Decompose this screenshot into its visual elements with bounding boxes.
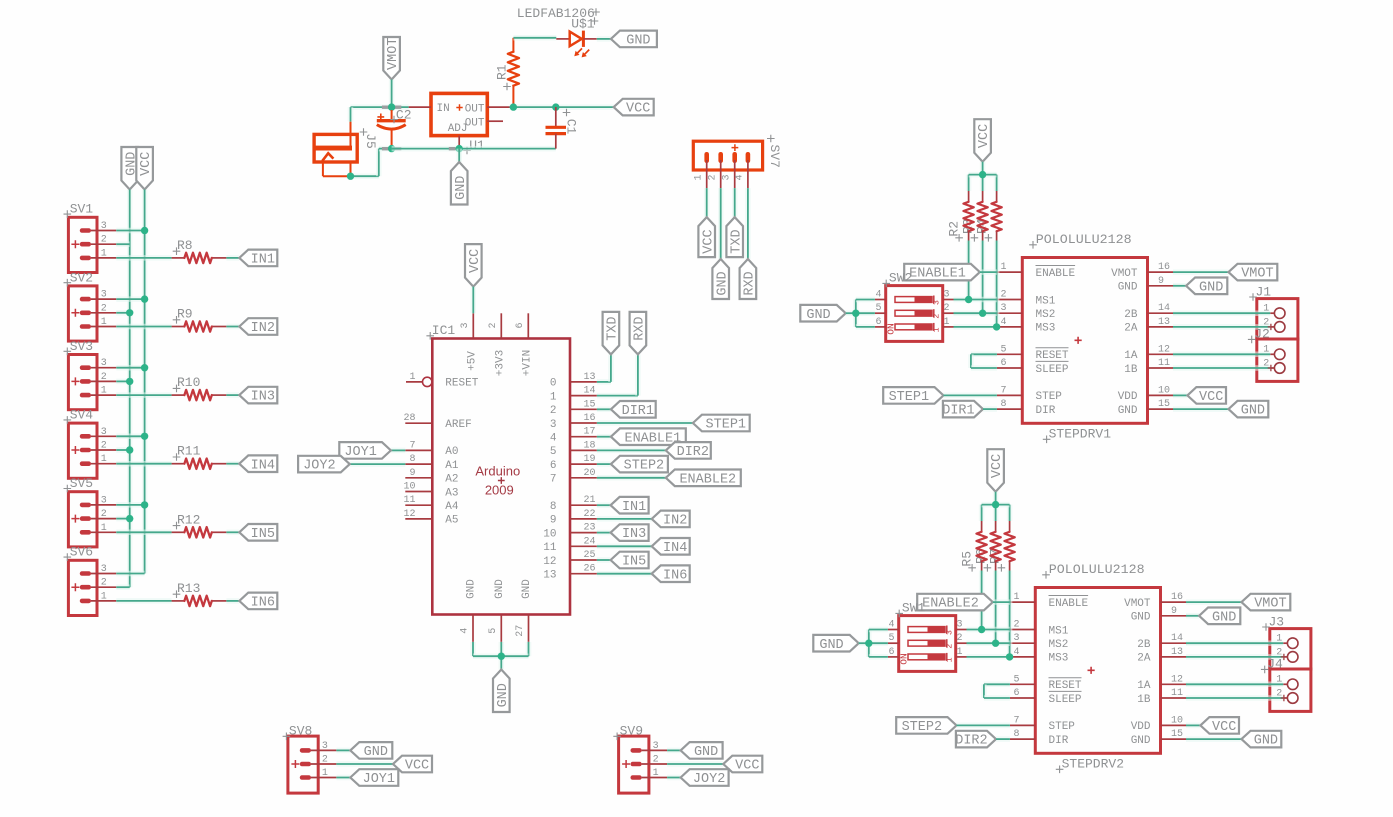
svg-text:ADJ: ADJ — [448, 123, 468, 135]
wire RESET-SLEEP tie STEPDRV1 — [971, 354, 997, 368]
wire SV3 pin2 to GND rail — [116, 379, 129, 385]
wire pullup 1 to MS1 STEPDRV2 — [979, 571, 985, 630]
svg-text:3: 3 — [101, 564, 107, 575]
svg-text:3: 3 — [101, 290, 107, 301]
pin IC1 GND pins — [460, 579, 534, 642]
svg-text:2: 2 — [707, 174, 718, 180]
wire SV7 pin2 to GND — [718, 188, 724, 259]
power flag GND (under IC1) — [493, 670, 511, 713]
wire SV8 pin1 — [336, 775, 350, 781]
node C1 junction — [552, 103, 559, 110]
svg-text:16: 16 — [1158, 262, 1170, 273]
net label GND (SV9) — [681, 742, 723, 760]
svg-text:2: 2 — [101, 578, 107, 589]
svg-text:3: 3 — [1000, 303, 1006, 314]
pin IC1 A2 — [405, 468, 458, 486]
connector J3 — [1186, 614, 1311, 669]
power flag VMOT (top) — [383, 37, 401, 80]
resistor R11 — [172, 444, 227, 469]
svg-text:ENABLE1: ENABLE1 — [909, 267, 966, 282]
svg-text:GND: GND — [1131, 735, 1151, 747]
svg-text:11: 11 — [1171, 688, 1183, 699]
svg-text:22: 22 — [584, 509, 596, 520]
svg-text:TXD: TXD — [606, 316, 621, 340]
svg-text:GND: GND — [1118, 405, 1138, 417]
connector J2 — [1173, 327, 1298, 382]
svg-text:GND: GND — [694, 745, 718, 760]
svg-text:MS1: MS1 — [1036, 295, 1056, 307]
svg-text:17: 17 — [584, 427, 596, 438]
wire VCC output net — [510, 104, 614, 110]
net label IN6 — [239, 593, 277, 611]
svg-text:13: 13 — [543, 570, 556, 582]
wire IC1 ground joining — [473, 642, 529, 670]
wire pullup 1 to MS1 STEPDRV1 — [966, 241, 972, 300]
resistor R10 — [172, 375, 227, 400]
wire VCC to pullups STEPDRV2 — [982, 492, 1010, 505]
mcu board IC1 Arduino2009 body — [426, 323, 570, 615]
svg-text:ON: ON — [886, 323, 897, 334]
svg-text:MS3: MS3 — [1049, 653, 1069, 665]
node R1 junction — [510, 103, 517, 110]
net label ENABLE2 — [666, 470, 741, 488]
wire SV6 pin2 to GND rail — [116, 584, 129, 590]
svg-text:2: 2 — [101, 372, 107, 383]
svg-text:3: 3 — [101, 221, 107, 232]
svg-text:GND: GND — [1131, 612, 1151, 624]
svg-text:1: 1 — [409, 372, 415, 383]
svg-text:IN1: IN1 — [622, 500, 646, 515]
svg-text:VDD: VDD — [1131, 721, 1151, 733]
wire DIR1 to DIR pin — [983, 406, 997, 412]
svg-text:JOY2: JOY2 — [693, 772, 725, 787]
svg-text:15: 15 — [584, 399, 596, 410]
stepper driver STEPDRV2 body — [1010, 562, 1186, 773]
svg-text:ENABLE: ENABLE — [1049, 598, 1089, 610]
svg-text:POLOLULU2128: POLOLULU2128 — [1049, 562, 1145, 577]
svg-text:5: 5 — [488, 628, 499, 634]
svg-text:SV7: SV7 — [767, 144, 782, 167]
svg-text:15: 15 — [1171, 729, 1183, 740]
svg-text:R10: R10 — [177, 375, 200, 390]
svg-text:VMOT: VMOT — [1254, 597, 1286, 612]
svg-text:VCC: VCC — [468, 249, 483, 273]
svg-text:GND: GND — [1118, 282, 1138, 294]
node C2 bottom junction — [382, 145, 401, 152]
svg-text:GND: GND — [1199, 280, 1223, 295]
svg-text:1B: 1B — [1137, 694, 1151, 706]
svg-text:14: 14 — [1171, 633, 1183, 644]
svg-text:12: 12 — [403, 509, 415, 520]
svg-text:RESET: RESET — [1036, 350, 1069, 362]
svg-text:4: 4 — [888, 620, 894, 631]
node MS3 junction STEPDRV2 — [1006, 653, 1013, 660]
junction SV3 GND — [126, 378, 133, 385]
net label GND (STEPDRV1 pin9) — [1173, 278, 1227, 296]
resistor network R5 — [960, 505, 1015, 572]
net label DIR1 — [611, 401, 656, 419]
wire R8 to IN1 — [226, 255, 239, 261]
svg-text:4: 4 — [460, 628, 471, 634]
net label VCC (regulator output) — [614, 99, 654, 117]
wire SW2 pin2 to MS2 — [954, 310, 997, 316]
svg-text:8: 8 — [409, 454, 415, 465]
svg-text:+3V3: +3V3 — [494, 350, 506, 376]
wire SV7 pin4 to RXD — [745, 188, 751, 259]
net label ENABLE1 — [611, 428, 686, 446]
svg-text:R12: R12 — [177, 512, 200, 527]
net label TXD (sv7) — [726, 217, 744, 257]
svg-text:11: 11 — [1158, 358, 1170, 369]
svg-text:SV2: SV2 — [70, 270, 93, 285]
svg-text:DIR: DIR — [1049, 735, 1069, 747]
svg-text:1: 1 — [101, 248, 107, 259]
svg-text:ENABLE2: ENABLE2 — [922, 597, 979, 612]
svg-text:SW2: SW2 — [889, 271, 912, 286]
connector J4 — [1186, 657, 1311, 712]
wire J5 ground to C2 bottom — [351, 149, 392, 177]
wire SV7 pin3 to TXD — [732, 188, 738, 217]
wire SV5 pin2 to GND rail — [116, 516, 129, 522]
connector SV3 — [64, 339, 117, 410]
svg-text:3: 3 — [101, 495, 107, 506]
svg-text:1A: 1A — [1137, 680, 1151, 692]
svg-text:A0: A0 — [445, 446, 458, 458]
svg-text:2: 2 — [653, 755, 659, 766]
svg-text:IN3: IN3 — [622, 527, 646, 542]
net label DIR2 — [955, 731, 996, 749]
svg-text:8: 8 — [550, 501, 557, 513]
svg-text:A3: A3 — [445, 487, 458, 499]
svg-text:2009: 2009 — [485, 483, 514, 498]
svg-text:R11: R11 — [177, 444, 201, 459]
wire IC1 to ENABLE1 — [597, 434, 611, 440]
net label DIR1 — [942, 401, 983, 419]
svg-text:2A: 2A — [1124, 323, 1138, 335]
wire IC1 to STEP2 — [597, 461, 611, 467]
svg-text:J5: J5 — [363, 133, 378, 149]
net label IN2 — [239, 318, 277, 336]
svg-text:6: 6 — [1000, 358, 1006, 369]
wire GND hub SW2 — [846, 300, 875, 327]
svg-text:IN1: IN1 — [251, 253, 275, 268]
svg-text:J3: J3 — [1269, 614, 1285, 629]
svg-text:8: 8 — [1000, 399, 1006, 410]
svg-text:14: 14 — [1158, 303, 1170, 314]
net label GND (SW1) — [813, 635, 858, 653]
svg-text:10: 10 — [1171, 715, 1183, 726]
net label GND (sv7) — [712, 259, 730, 299]
svg-text:DIR1: DIR1 — [622, 404, 654, 419]
svg-text:SV9: SV9 — [620, 724, 643, 739]
svg-text:GND: GND — [1212, 610, 1236, 625]
wire pullup 3 to MS3 STEPDRV2 — [1007, 571, 1013, 657]
svg-text:STEPDRV2: STEPDRV2 — [1062, 757, 1124, 772]
svg-text:10: 10 — [543, 528, 556, 540]
wire IC1 to ENABLE2 — [597, 475, 666, 481]
wire SV8 pin3 — [336, 748, 350, 754]
svg-text:3: 3 — [944, 290, 950, 301]
wire IC1 to STEP1 — [597, 420, 693, 426]
svg-text:2: 2 — [322, 755, 328, 766]
wire IC1 pin14 to RXD — [597, 354, 638, 395]
svg-text:4: 4 — [1000, 317, 1006, 328]
svg-text:+VIN: +VIN — [521, 350, 533, 376]
svg-text:MS2: MS2 — [1049, 639, 1069, 651]
svg-text:16: 16 — [584, 413, 596, 424]
svg-text:3: 3 — [322, 741, 328, 752]
junction SV5 VCC — [141, 501, 148, 508]
wire SV5 pin1 to R12 — [116, 530, 171, 536]
svg-text:12: 12 — [1158, 344, 1170, 355]
svg-text:20: 20 — [584, 468, 596, 479]
svg-text:11: 11 — [543, 542, 557, 554]
svg-text:ON: ON — [899, 653, 910, 664]
svg-text:RESET: RESET — [1049, 680, 1082, 692]
node GND hub junction SW2 — [852, 310, 859, 317]
svg-text:GND: GND — [806, 308, 830, 323]
svg-text:STEP2: STEP2 — [624, 459, 665, 474]
svg-text:6: 6 — [888, 647, 894, 658]
svg-text:IN6: IN6 — [663, 568, 687, 583]
wire SV1 pin1 to R8 — [116, 255, 171, 261]
wire SV2 pin1 to R9 — [116, 324, 171, 330]
wire SW1 pin3 to MS1 — [967, 627, 1010, 633]
svg-text:GND: GND — [364, 745, 388, 760]
svg-text:A1: A1 — [445, 460, 459, 472]
svg-text:GND: GND — [454, 176, 469, 200]
svg-text:VCC: VCC — [405, 759, 429, 774]
svg-text:2B: 2B — [1124, 309, 1138, 321]
svg-text:23: 23 — [584, 523, 596, 534]
net label VCC (SV8) — [393, 756, 432, 774]
wire SV7 pin1 to VCC — [704, 188, 710, 217]
junction SV4 VCC — [141, 433, 148, 440]
connector SV1 — [64, 202, 117, 273]
junction SV2 VCC — [141, 295, 148, 302]
svg-text:IC1: IC1 — [432, 323, 456, 338]
svg-text:GND: GND — [521, 579, 533, 599]
svg-text:4: 4 — [1013, 647, 1019, 658]
svg-text:6: 6 — [550, 460, 557, 472]
wire SV4 pin2 to GND rail — [116, 447, 129, 453]
net label VCC (SV9) — [723, 756, 762, 774]
net label IN1 — [239, 250, 277, 268]
svg-text:2: 2 — [101, 235, 107, 246]
wire IC1 pin13 to TXD — [597, 354, 611, 382]
svg-text:SV4: SV4 — [70, 408, 94, 423]
svg-text:1: 1 — [101, 591, 107, 602]
dip switch SW2 — [875, 271, 954, 342]
wire SV1 pin2 to GND rail — [116, 241, 129, 247]
pin IC1 A4 — [403, 495, 458, 513]
svg-text:SLEEP: SLEEP — [1036, 364, 1069, 376]
svg-text:IN5: IN5 — [251, 527, 275, 542]
svg-text:J4: J4 — [1267, 657, 1283, 672]
svg-text:GND: GND — [1254, 734, 1278, 749]
pin IC1 A1 — [405, 454, 459, 472]
net label GND (STEPDRV2 pin15) — [1186, 731, 1281, 749]
svg-text:3: 3 — [931, 300, 941, 305]
wire pullup 2 to MS2 STEPDRV1 — [980, 241, 986, 314]
node pullup VCC junction STEPDRV1 — [979, 171, 986, 178]
svg-text:18: 18 — [584, 440, 596, 451]
svg-text:1: 1 — [653, 768, 659, 779]
svg-text:1B: 1B — [1124, 364, 1138, 376]
connector SV8 — [283, 724, 337, 794]
svg-text:25: 25 — [584, 550, 596, 561]
svg-text:VMOT: VMOT — [1124, 598, 1151, 610]
svg-text:ENABLE2: ENABLE2 — [679, 472, 736, 487]
node MS2 junction STEPDRV2 — [992, 640, 999, 647]
net label IN5 — [239, 524, 277, 542]
svg-text:VCC: VCC — [1199, 390, 1223, 405]
net label VCC (sv7) — [698, 217, 716, 257]
node MS3 junction STEPDRV1 — [993, 323, 1000, 330]
svg-text:16: 16 — [1171, 592, 1183, 603]
net label IN4 — [239, 455, 277, 473]
svg-text:DIR: DIR — [1036, 405, 1056, 417]
node VIN junction — [382, 103, 401, 110]
wire VCC to IC1 pin3 — [471, 287, 477, 314]
wire R9 to IN2 — [226, 324, 239, 330]
svg-text:RXD: RXD — [633, 316, 648, 340]
resistor R1 — [495, 38, 520, 107]
junction SV3 VCC — [141, 364, 148, 371]
node J5 ground junction — [347, 173, 354, 180]
wire SV2 pin3 to VCC rail — [116, 296, 144, 302]
net label STEP2 — [896, 717, 956, 735]
svg-text:VDD: VDD — [1118, 391, 1138, 403]
svg-text:+5V: +5V — [466, 351, 478, 371]
power flag GND (left rail) — [121, 147, 139, 190]
svg-text:J1: J1 — [1256, 284, 1272, 299]
svg-text:RXD: RXD — [743, 271, 758, 295]
svg-text:VCC: VCC — [626, 102, 650, 117]
wire SV3 pin3 to VCC rail — [116, 365, 144, 371]
junction SV5 GND — [126, 515, 133, 522]
svg-text:7: 7 — [550, 474, 557, 486]
wire SV5 pin3 to VCC rail — [116, 502, 144, 508]
svg-text:6: 6 — [875, 317, 881, 328]
net label STEP2 — [611, 456, 668, 474]
power flag VCC (STEPDRV1 pullups) — [974, 119, 992, 162]
svg-text:2: 2 — [101, 441, 107, 452]
svg-text:12: 12 — [1171, 674, 1183, 685]
pin IC1 A5 — [403, 509, 458, 527]
svg-text:1: 1 — [944, 657, 954, 662]
wire SV1 pin3 to VCC rail — [116, 228, 144, 234]
svg-text:MS1: MS1 — [1049, 625, 1069, 637]
svg-text:JOY1: JOY1 — [363, 772, 395, 787]
junction SV1 VCC — [141, 227, 148, 234]
svg-text:RESET: RESET — [445, 378, 478, 390]
net label GND (STEPDRV1 pin15) — [1173, 401, 1268, 419]
wire LED cathode to GND — [597, 36, 611, 42]
wire STEP1 to STEP pin — [944, 393, 997, 399]
net label JOY2 (SV9) — [681, 769, 729, 787]
svg-text:27: 27 — [515, 625, 526, 637]
wire R1 to LED — [513, 35, 556, 41]
svg-text:9: 9 — [550, 515, 557, 527]
wire IC1 to IN5 — [597, 557, 611, 563]
svg-text:SV5: SV5 — [70, 476, 93, 491]
connector SV7 — [693, 135, 782, 188]
svg-text:IN2: IN2 — [251, 321, 275, 336]
connector SV5 — [64, 476, 117, 547]
power flag VCC (left rail) — [136, 147, 154, 190]
wire pullup 2 to MS2 STEPDRV2 — [993, 571, 999, 644]
svg-text:1: 1 — [1000, 262, 1006, 273]
resistor R9 — [172, 307, 227, 332]
svg-text:OUT: OUT — [465, 104, 485, 116]
junction SV2 GND — [126, 309, 133, 316]
svg-text:STEP: STEP — [1036, 391, 1063, 403]
wire GND rail vertical — [127, 190, 133, 588]
svg-text:GND: GND — [819, 638, 843, 653]
svg-text:SV1: SV1 — [70, 202, 94, 217]
net label IN1 — [611, 497, 649, 515]
svg-text:C2: C2 — [396, 107, 412, 122]
svg-text:7: 7 — [1013, 715, 1019, 726]
svg-text:2: 2 — [488, 322, 499, 328]
svg-text:R1: R1 — [495, 64, 510, 80]
node MS1 junction STEPDRV2 — [978, 626, 985, 633]
svg-text:3: 3 — [944, 630, 954, 635]
wire IC1 to IN2 — [597, 516, 652, 522]
net label IN3 — [611, 524, 649, 542]
svg-text:J2: J2 — [1254, 327, 1270, 342]
wire pullup 3 to MS3 STEPDRV1 — [994, 241, 1000, 327]
pin IC1 +3V3 — [488, 313, 506, 376]
dc jack J5 — [313, 122, 378, 177]
svg-text:ENABLE: ENABLE — [1036, 268, 1076, 280]
wire R13 to IN6 — [226, 598, 239, 604]
net label IN2 — [652, 511, 690, 529]
junction SV4 GND — [126, 446, 133, 453]
pin IC1 +5V — [460, 313, 478, 371]
wire GND hub SW1 — [859, 630, 888, 657]
svg-text:1A: 1A — [1124, 350, 1138, 362]
svg-text:2: 2 — [957, 633, 963, 644]
net label JOY2 — [298, 456, 350, 474]
wire SV4 pin1 to R11 — [116, 461, 171, 467]
wire STEP2 to STEP pin — [957, 723, 1010, 729]
wire RESET-SLEEP tie STEPDRV2 — [984, 684, 1010, 698]
svg-text:1: 1 — [957, 647, 963, 658]
svg-text:21: 21 — [584, 495, 596, 506]
wire R12 to IN5 — [226, 530, 239, 536]
svg-text:2A: 2A — [1137, 653, 1151, 665]
svg-text:3: 3 — [653, 741, 659, 752]
svg-text:AREF: AREF — [445, 419, 471, 431]
svg-text:9: 9 — [1158, 276, 1164, 287]
wire R11 to IN4 — [226, 461, 239, 467]
wire VMOT to regulator input node — [389, 80, 395, 108]
node IC1 ground junction — [498, 653, 505, 660]
svg-text:1: 1 — [931, 327, 941, 332]
capacitor C2 — [377, 107, 412, 148]
net label STEP1 — [883, 387, 943, 405]
net label ENABLE2 — [917, 594, 993, 612]
svg-text:A2: A2 — [445, 474, 458, 486]
wire input node to U1 IN — [392, 104, 409, 110]
svg-text:12: 12 — [543, 556, 556, 568]
stepper driver STEPDRV1 body — [997, 232, 1173, 443]
svg-text:JOY1: JOY1 — [344, 445, 376, 460]
wire JOY2 to IC1 A1 — [350, 461, 406, 467]
capacitor C1 — [546, 107, 579, 149]
